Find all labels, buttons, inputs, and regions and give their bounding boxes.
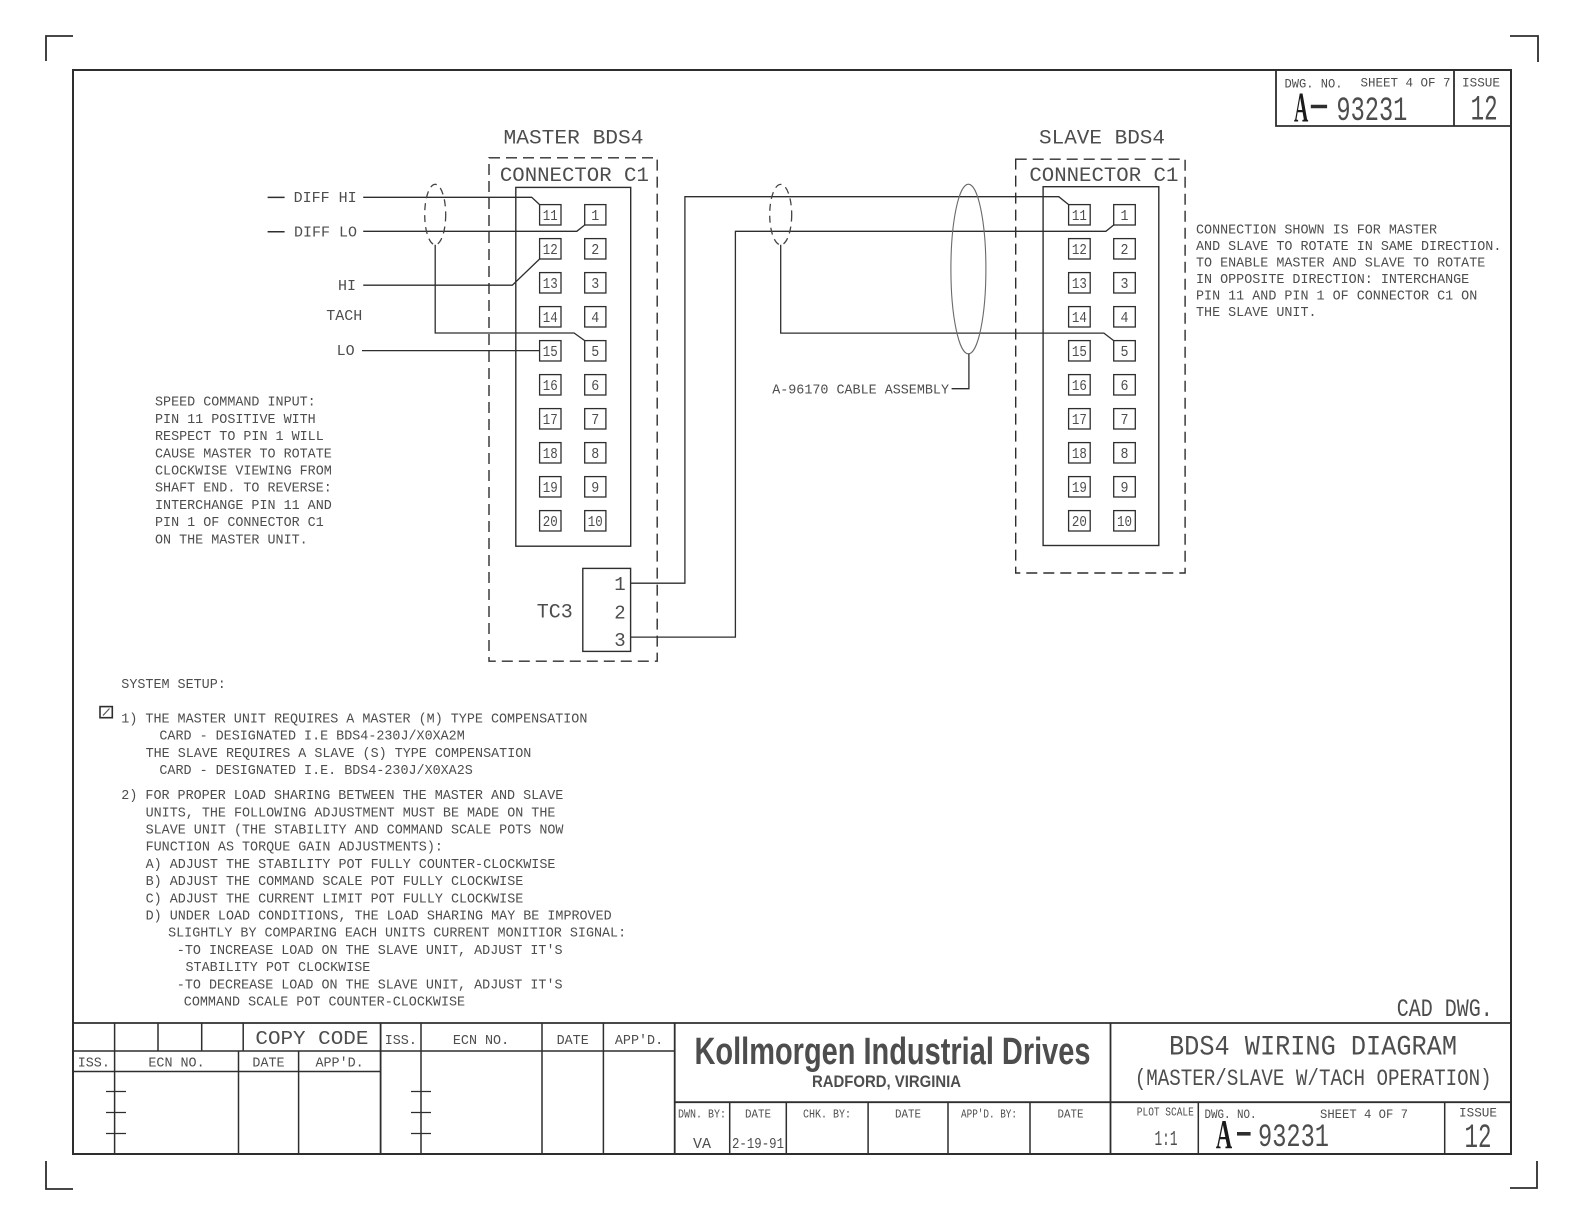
svg-text:7: 7: [1121, 412, 1129, 429]
revision table left verticals: [115, 1023, 381, 1154]
svg-text:13: 13: [1072, 276, 1087, 293]
svg-text:2: 2: [614, 603, 625, 625]
corner mark bottom-left: [46, 1161, 73, 1189]
slave pin box 11: [1069, 205, 1091, 225]
svg-text:ECN NO.: ECN NO.: [453, 1034, 509, 1049]
master pin box 8: [585, 443, 606, 463]
wire TC3 pin1 to slave pin 11: [631, 197, 1069, 584]
svg-text:13: 13: [543, 276, 558, 293]
svg-text:-TO DECREASE LOAD ON THE SLAVE: -TO DECREASE LOAD ON THE SLAVE UNIT, ADJ…: [177, 978, 563, 993]
top dwg-no box divider: [1453, 70, 1455, 126]
svg-text:B) ADJUST THE COMMAND SCALE PO: B) ADJUST THE COMMAND SCALE POT FULLY CL…: [146, 875, 524, 890]
master dashed enclosure: [489, 158, 657, 661]
master pin box 5: [585, 341, 606, 361]
svg-text:DWN. BY:: DWN. BY:: [678, 1108, 726, 1122]
master pin box 19: [540, 477, 561, 497]
svg-text:9: 9: [591, 480, 599, 497]
master pin box 6: [585, 375, 606, 395]
svg-text:CONNECTOR C1: CONNECTOR C1: [500, 165, 649, 188]
svg-text:Kollmorgen Industrial Drives: Kollmorgen Industrial Drives: [695, 1030, 1091, 1073]
svg-text:ISS.: ISS.: [385, 1034, 417, 1049]
svg-text:10: 10: [1117, 514, 1132, 531]
master pin box 3: [585, 273, 606, 293]
master pin box 4: [585, 307, 606, 327]
slave pin box 3: [1114, 273, 1136, 293]
slave pin box 1: [1114, 205, 1136, 225]
svg-text:IN OPPOSITE DIRECTION: INTERCH: IN OPPOSITE DIRECTION: INTERCHANGE: [1196, 273, 1469, 288]
slave pin box 5: [1114, 341, 1136, 361]
label DIFF LO: [268, 231, 285, 233]
svg-text:11: 11: [1072, 208, 1087, 225]
wire TC3 pin3 to slave pin 1: [631, 225, 1114, 637]
revision tick marks left: [106, 1092, 126, 1134]
svg-text:8: 8: [1121, 446, 1129, 463]
master pin box 20: [540, 511, 561, 531]
svg-text:17: 17: [543, 412, 558, 429]
svg-text:UNITS, THE FOLLOWING ADJUSTMEN: UNITS, THE FOLLOWING ADJUSTMENT MUST BE …: [146, 806, 556, 821]
svg-text:INTERCHANGE PIN 11 AND: INTERCHANGE PIN 11 AND: [155, 499, 332, 514]
svg-text:93231: 93231: [1336, 93, 1407, 131]
svg-text:APP'D.: APP'D.: [315, 1057, 363, 1072]
svg-text:APP'D. BY:: APP'D. BY:: [961, 1108, 1017, 1122]
svg-text:SYSTEM SETUP:: SYSTEM SETUP:: [121, 678, 225, 693]
drawing number dash (top): [1311, 105, 1327, 109]
svg-text:APP'D.: APP'D.: [615, 1034, 663, 1049]
svg-text:SHEET 4 OF 7: SHEET 4 OF 7: [1361, 76, 1451, 91]
slave pin box 9: [1114, 477, 1136, 497]
svg-text:COMMAND SCALE POT COUNTER-CLOC: COMMAND SCALE POT COUNTER-CLOCKWISE: [184, 996, 465, 1011]
svg-text:20: 20: [543, 514, 558, 531]
svg-text:TACH: TACH: [326, 308, 362, 325]
revision table middle verticals: [421, 1023, 675, 1154]
svg-text:14: 14: [543, 310, 558, 327]
svg-text:11: 11: [543, 208, 558, 225]
title block top line: [73, 1022, 1511, 1024]
svg-text:DWG. NO.: DWG. NO.: [1285, 77, 1343, 92]
note 1 compensation cards: [121, 713, 587, 780]
master connector body: [516, 187, 631, 546]
master pin box 11: [540, 205, 561, 225]
svg-text:10: 10: [588, 514, 603, 531]
svg-text:CONNECTION SHOWN IS FOR MASTER: CONNECTION SHOWN IS FOR MASTER: [1196, 224, 1437, 239]
svg-text:RADFORD, VIRGINIA: RADFORD, VIRGINIA: [812, 1072, 961, 1091]
svg-text:15: 15: [543, 344, 558, 361]
master pin box 15: [540, 341, 561, 361]
svg-text:17: 17: [1072, 412, 1087, 429]
wire shield drain to master pin 5: [435, 245, 585, 341]
svg-text:DATE: DATE: [252, 1057, 284, 1072]
master pin box 9: [585, 477, 606, 497]
checkbox note 1: [100, 707, 112, 718]
svg-text:14: 14: [1072, 310, 1087, 327]
svg-text:SHEET 4 OF 7: SHEET 4 OF 7: [1320, 1107, 1408, 1122]
corner mark top-right: [1510, 36, 1538, 62]
svg-text:1) THE MASTER UNIT REQUIRES A: 1) THE MASTER UNIT REQUIRES A MASTER (M)…: [121, 713, 587, 728]
revision table left horizontals: [73, 1051, 675, 1072]
middle table headers: [385, 1034, 663, 1049]
svg-text:PIN 1 OF CONNECTOR C1: PIN 1 OF CONNECTOR C1: [155, 516, 324, 531]
svg-text:DIFF LO: DIFF LO: [294, 225, 357, 242]
cable assembly ellipse: [951, 184, 986, 354]
svg-text:5: 5: [591, 344, 599, 361]
svg-text:CONNECTOR C1: CONNECTOR C1: [1029, 165, 1178, 188]
svg-text:4: 4: [591, 310, 599, 327]
svg-text:RESPECT TO PIN 1 WILL: RESPECT TO PIN 1 WILL: [155, 430, 324, 445]
svg-text:A-96170 CABLE ASSEMBLY: A-96170 CABLE ASSEMBLY: [772, 384, 949, 399]
top dwg-no box: [1276, 70, 1511, 126]
svg-text:THE SLAVE UNIT.: THE SLAVE UNIT.: [1196, 306, 1317, 321]
svg-text:CLOCKWISE VIEWING FROM: CLOCKWISE VIEWING FROM: [155, 465, 332, 480]
svg-text:4: 4: [1121, 310, 1129, 327]
cable assembly leader line: [952, 354, 969, 389]
plot scale cell divider: [1197, 1102, 1199, 1154]
svg-text:12: 12: [1465, 1120, 1492, 1158]
svg-text:-TO INCREASE LOAD ON THE SLAVE: -TO INCREASE LOAD ON THE SLAVE UNIT, ADJ…: [177, 944, 563, 959]
svg-text:SLAVE UNIT (THE STABILITY AND: SLAVE UNIT (THE STABILITY AND COMMAND SC…: [146, 824, 565, 839]
svg-text:18: 18: [543, 446, 558, 463]
svg-text:ISSUE: ISSUE: [1459, 1106, 1497, 1121]
svg-text:DATE: DATE: [745, 1108, 771, 1122]
svg-text:DATE: DATE: [895, 1108, 921, 1122]
company block divider: [675, 1101, 1511, 1103]
wire DIFF HI to master pin 11: [363, 197, 539, 204]
svg-text:SHAFT END. TO REVERSE:: SHAFT END. TO REVERSE:: [155, 482, 332, 497]
master pin box 1: [585, 205, 606, 225]
svg-text:TC3: TC3: [537, 602, 573, 625]
note 2 load sharing: [121, 789, 626, 1010]
slave dashed enclosure: [1016, 159, 1185, 573]
svg-text:12: 12: [1072, 242, 1087, 259]
slave connector body: [1043, 187, 1159, 546]
master pin box 14: [540, 307, 561, 327]
svg-text:CHK. BY:: CHK. BY:: [803, 1108, 851, 1122]
svg-text:6: 6: [591, 378, 599, 395]
svg-text:93231: 93231: [1258, 1119, 1329, 1156]
svg-text:PIN 11 POSITIVE WITH: PIN 11 POSITIVE WITH: [155, 413, 316, 428]
svg-text:CAUSE MASTER TO ROTATE: CAUSE MASTER TO ROTATE: [155, 447, 332, 462]
svg-text:16: 16: [543, 378, 558, 395]
svg-text:PIN 11 AND PIN 1 OF CONNECTOR: PIN 11 AND PIN 1 OF CONNECTOR C1 ON: [1196, 290, 1477, 305]
svg-text:A: A: [1216, 1113, 1232, 1158]
revision tick marks middle: [411, 1092, 431, 1134]
svg-text:DATE: DATE: [1058, 1108, 1084, 1122]
svg-text:2: 2: [591, 242, 599, 259]
svg-text:1: 1: [591, 208, 599, 225]
corner mark bottom-right: [1510, 1161, 1537, 1188]
svg-text:16: 16: [1072, 378, 1087, 395]
wire DIFF LO to master pin 1: [363, 225, 585, 231]
svg-text:CARD - DESIGNATED I.E. BDS4-23: CARD - DESIGNATED I.E. BDS4-230J/X0XA2S: [159, 764, 472, 779]
svg-text:TO ENABLE MASTER AND SLAVE TO: TO ENABLE MASTER AND SLAVE TO ROTATE: [1196, 257, 1485, 272]
svg-text:HI: HI: [338, 278, 356, 295]
slave pin box 8: [1114, 443, 1136, 463]
svg-text:CAD DWG.: CAD DWG.: [1397, 995, 1493, 1024]
svg-text:3: 3: [591, 276, 599, 293]
slave pin box 16: [1069, 375, 1091, 395]
svg-text:VA: VA: [693, 1136, 711, 1153]
slave pin box 19: [1069, 477, 1091, 497]
signature row verticals: [730, 1023, 1111, 1154]
shield symbol left (dashed ellipse): [425, 184, 446, 244]
svg-text:1:1: 1:1: [1155, 1129, 1178, 1152]
slave pin box 15: [1069, 341, 1091, 361]
master pin box 12: [540, 239, 561, 259]
svg-text:19: 19: [543, 480, 558, 497]
master pin box 10: [585, 511, 606, 531]
svg-text:C) ADJUST THE CURRENT LIMIT PO: C) ADJUST THE CURRENT LIMIT POT FULLY CL…: [146, 892, 524, 907]
note speed command input: [155, 396, 332, 549]
svg-text:A) ADJUST THE STABILITY POT FU: A) ADJUST THE STABILITY POT FULLY COUNTE…: [146, 858, 556, 873]
svg-text:SLIGHTLY BY COMPARING EACH UNI: SLIGHTLY BY COMPARING EACH UNITS CURRENT…: [168, 927, 626, 942]
svg-text:A: A: [1294, 86, 1308, 132]
note connection direction: [1196, 224, 1501, 322]
svg-text:2-19-91: 2-19-91: [732, 1136, 784, 1153]
svg-text:DIFF HI: DIFF HI: [294, 190, 357, 207]
svg-text:D) UNDER LOAD CONDITIONS, THE: D) UNDER LOAD CONDITIONS, THE LOAD SHARI…: [146, 910, 612, 925]
slave pin box 6: [1114, 375, 1136, 395]
svg-text:AND SLAVE TO ROTATE IN SAME DI: AND SLAVE TO ROTATE IN SAME DIRECTION.: [1196, 240, 1501, 255]
svg-text:15: 15: [1072, 344, 1087, 361]
slave pin box 13: [1069, 273, 1091, 293]
slave pin box 2: [1114, 239, 1136, 259]
svg-text:12: 12: [543, 242, 558, 259]
drawing number dash (bottom): [1237, 1132, 1251, 1136]
svg-text:7: 7: [591, 412, 599, 429]
svg-text:5: 5: [1121, 344, 1129, 361]
signature row labels: [678, 1108, 1084, 1122]
slave pin box 14: [1069, 307, 1091, 327]
master pin box 13: [540, 273, 561, 293]
master pin box 7: [585, 409, 606, 429]
svg-text:PLOT SCALE: PLOT SCALE: [1137, 1106, 1194, 1120]
svg-text:1: 1: [1121, 208, 1129, 225]
svg-text:ECN NO.: ECN NO.: [148, 1057, 204, 1072]
corner mark top-left: [46, 36, 73, 61]
slave pin box 4: [1114, 307, 1136, 327]
svg-text:3: 3: [614, 630, 625, 652]
svg-text:18: 18: [1072, 446, 1087, 463]
shield symbol right (dashed ellipse): [770, 184, 792, 244]
svg-text:BDS4 WIRING DIAGRAM: BDS4 WIRING DIAGRAM: [1169, 1033, 1457, 1064]
svg-text:ON THE MASTER UNIT.: ON THE MASTER UNIT.: [155, 533, 308, 548]
svg-text:12: 12: [1471, 90, 1498, 130]
svg-text:THE SLAVE REQUIRES A SLAVE (S): THE SLAVE REQUIRES A SLAVE (S) TYPE COMP…: [146, 747, 532, 762]
wire LO to master pin 15: [362, 350, 540, 352]
svg-text:SLAVE BDS4: SLAVE BDS4: [1039, 128, 1165, 151]
svg-text:6: 6: [1121, 378, 1129, 395]
slave pin box 12: [1069, 239, 1091, 259]
left table headers: [78, 1057, 364, 1072]
master pin box 17: [540, 409, 561, 429]
svg-text:MASTER BDS4: MASTER BDS4: [504, 127, 644, 150]
issue cell divider: [1444, 1102, 1446, 1154]
slave pin box 7: [1114, 409, 1136, 429]
slave pin box 10: [1114, 511, 1136, 531]
svg-text:STABILITY POT CLOCKWISE: STABILITY POT CLOCKWISE: [186, 961, 371, 976]
svg-text:ISS.: ISS.: [78, 1057, 110, 1072]
svg-text:COPY CODE: COPY CODE: [255, 1028, 368, 1050]
svg-text:9: 9: [1121, 480, 1129, 497]
svg-text:19: 19: [1072, 480, 1087, 497]
svg-text:2: 2: [1121, 242, 1129, 259]
slave pin box 18: [1069, 443, 1091, 463]
svg-text:DATE: DATE: [557, 1034, 589, 1049]
master pin box 16: [540, 375, 561, 395]
terminal block TC3: [583, 568, 631, 651]
wire shield drain to slave pin 5: [781, 245, 1114, 341]
svg-text:3: 3: [1121, 276, 1129, 293]
svg-text:LO: LO: [337, 343, 355, 360]
master pin box 2: [585, 239, 606, 259]
svg-text:SPEED COMMAND INPUT:: SPEED COMMAND INPUT:: [155, 396, 316, 411]
svg-text:20: 20: [1072, 514, 1087, 531]
svg-text:(MASTER/SLAVE W/TACH OPERATION: (MASTER/SLAVE W/TACH OPERATION): [1135, 1066, 1492, 1092]
wire HI to master pin 12: [363, 259, 539, 285]
label DIFF HI: [268, 196, 285, 198]
svg-text:CARD - DESIGNATED I.E BDS4-230: CARD - DESIGNATED I.E BDS4-230J/X0XA2M: [159, 730, 464, 745]
svg-text:8: 8: [591, 446, 599, 463]
slave pin box 17: [1069, 409, 1091, 429]
svg-text:2) FOR PROPER LOAD SHARING BET: 2) FOR PROPER LOAD SHARING BETWEEN THE M…: [121, 789, 563, 804]
slave pin box 20: [1069, 511, 1091, 531]
master pin box 18: [540, 443, 561, 463]
svg-text:ISSUE: ISSUE: [1462, 76, 1500, 91]
svg-text:1: 1: [614, 574, 625, 596]
svg-text:FUNCTION AS TORQUE GAIN ADJUST: FUNCTION AS TORQUE GAIN ADJUSTMENTS):: [146, 841, 443, 856]
